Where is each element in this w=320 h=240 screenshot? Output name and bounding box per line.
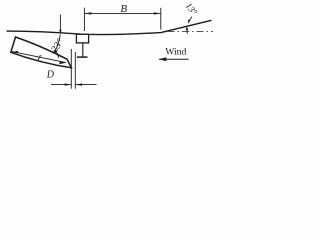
svg-text:D: D [46, 70, 55, 81]
svg-text:13°: 13° [184, 1, 200, 17]
svg-text:B: B [120, 3, 127, 15]
svg-text:Wind: Wind [165, 46, 186, 57]
